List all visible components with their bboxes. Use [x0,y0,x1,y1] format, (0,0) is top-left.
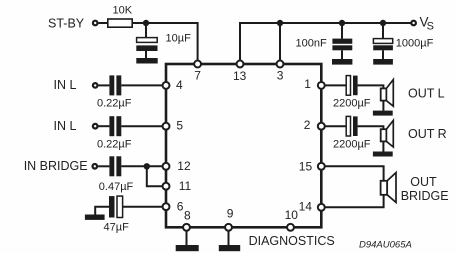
svg-text:OUT L: OUT L [408,87,445,101]
wire [98,165,109,167]
pin 7 [194,61,201,83]
capacitor 100nF [296,23,353,59]
pin 10 [285,208,299,231]
pin 8 [183,208,191,230]
node junction [277,20,283,26]
wire [121,125,166,127]
svg-text:0.22µF: 0.22µF [97,98,132,110]
svg-text:IN BRIDGE: IN BRIDGE [24,159,88,173]
pin 13 [233,61,247,84]
wire [186,227,188,245]
svg-text:12: 12 [177,159,191,173]
svg-text:0.22µF: 0.22µF [97,138,132,150]
svg-text:OUT: OUT [410,175,437,189]
speaker OUT L [381,80,445,107]
svg-text:OUT R: OUT R [408,127,447,141]
capacitor 1000uF [373,23,433,59]
op-amp U1 IC body [166,64,321,227]
ground [332,59,352,65]
svg-text:2200µF: 2200µF [333,98,371,110]
wire [321,166,383,181]
svg-text:4: 4 [176,78,183,92]
wire [121,84,166,86]
svg-text:14: 14 [299,199,313,213]
wire [121,165,166,167]
ground [373,111,393,116]
terminal IN BRIDGE [24,159,97,173]
pin 5 [163,118,184,132]
node junction [144,163,150,169]
svg-text:3: 3 [277,69,284,83]
svg-text:5: 5 [176,118,183,132]
terminal VS [411,15,434,33]
pin 1 [304,77,325,91]
pin 4 [163,78,183,92]
svg-text:6: 6 [177,199,184,213]
svg-text:13: 13 [233,69,247,83]
ground [136,58,157,64]
svg-text:DIAGNOSTICS: DIAGNOSTICS [249,234,335,248]
speaker OUT BRIDGE [381,173,449,204]
capacitor 0.47uF [99,156,134,193]
pin 15 [299,160,325,174]
svg-text:10: 10 [285,208,299,222]
speaker OUT R [381,120,447,147]
svg-text:8: 8 [184,208,191,222]
svg-text:10µF: 10µF [166,33,192,45]
wire [321,84,346,86]
capacitor 2200uF (lower) [333,116,371,150]
svg-text:IN L: IN L [54,119,77,133]
terminal IN L (upper) [54,78,98,92]
wire [321,195,383,208]
svg-text:47µF: 47µF [104,222,130,234]
wire [99,22,108,24]
svg-text:0.47µF: 0.47µF [99,181,134,193]
capacitor 2200uF (upper) [333,76,371,110]
capacitor 47uF [104,196,130,234]
terminal ST-BY [48,17,97,31]
svg-text:1000µF: 1000µF [396,37,434,49]
node junction [143,20,149,26]
node junction [339,20,345,26]
wire [358,85,384,88]
ground [373,59,393,65]
svg-text:2200µF: 2200µF [333,138,371,150]
wire [382,101,384,111]
capacitor 10uF [136,23,191,58]
svg-text:1: 1 [304,77,311,91]
wire [123,206,166,208]
ground [85,207,109,220]
terminal IN L (lower) [54,119,98,133]
pin 11 [163,179,192,193]
svg-text:2: 2 [304,118,311,132]
pin 6 [163,199,184,213]
ground [373,152,393,157]
svg-text:9: 9 [227,207,234,221]
wire [321,125,346,127]
svg-text:D94AU065A: D94AU065A [359,239,412,250]
capacitor 0.22uF (upper) [97,75,132,109]
svg-text:IN L: IN L [54,78,77,92]
svg-text:10K: 10K [113,4,133,16]
ground [219,245,240,251]
svg-text:11: 11 [179,179,192,193]
svg-text:S: S [427,21,434,33]
svg-text:15: 15 [299,160,313,174]
svg-text:100nF: 100nF [296,37,327,49]
wire [240,23,411,64]
wire [99,84,110,86]
pin 9 [225,207,234,231]
wire [228,227,230,245]
pin 14 [299,199,325,213]
svg-text:BRIDGE: BRIDGE [401,189,449,203]
svg-text:7: 7 [194,68,201,82]
wire [382,141,384,151]
wire [99,125,110,127]
wire [358,126,384,129]
ground [176,245,199,251]
node junction [380,20,386,26]
pin 2 [304,118,325,132]
svg-text:ST-BY: ST-BY [48,17,85,31]
resistor R 10K [108,4,133,27]
wire [147,166,166,186]
capacitor 0.22uF (lower) [97,116,132,150]
pin 3 [277,61,284,83]
wire [132,23,197,63]
pin 12 [163,159,191,173]
